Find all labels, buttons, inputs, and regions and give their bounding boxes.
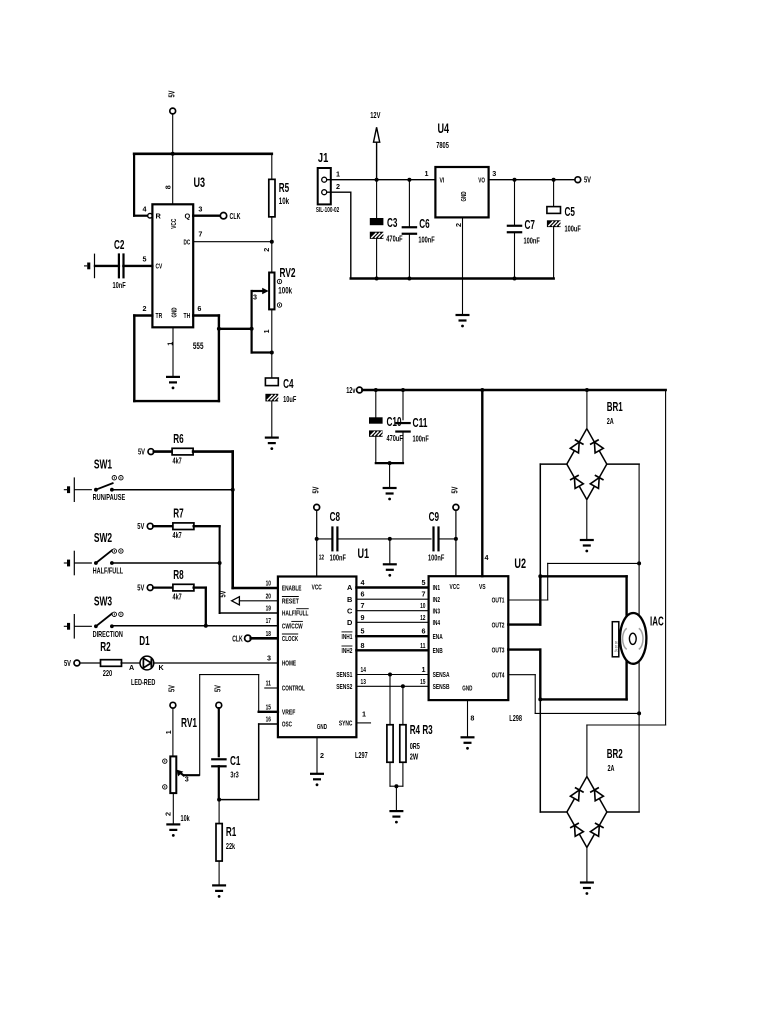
svg-text:SENS2: SENS2	[336, 682, 352, 691]
svg-text:VCC: VCC	[450, 582, 461, 591]
svg-text:IN1: IN1	[433, 583, 441, 592]
svg-text:R6: R6	[173, 432, 183, 446]
svg-text:2: 2	[143, 304, 147, 313]
svg-text:5V: 5V	[137, 521, 144, 531]
svg-text:R8: R8	[173, 568, 183, 582]
svg-text:3: 3	[492, 169, 496, 178]
svg-text:2A: 2A	[607, 416, 614, 426]
svg-text:GND: GND	[317, 722, 327, 731]
svg-text:5V: 5V	[167, 685, 177, 692]
svg-text:100nF: 100nF	[418, 235, 434, 245]
svg-text:1: 1	[262, 329, 271, 333]
svg-text:5V: 5V	[64, 658, 71, 668]
svg-text:1: 1	[166, 342, 175, 346]
svg-text:GND: GND	[459, 191, 468, 201]
svg-text:3: 3	[253, 293, 257, 302]
svg-text:RV1: RV1	[181, 716, 197, 730]
svg-text:OUT3: OUT3	[492, 645, 505, 654]
svg-text:4: 4	[485, 553, 489, 562]
svg-text:IN2: IN2	[433, 595, 441, 604]
svg-text:SW3: SW3	[94, 594, 112, 608]
svg-text:U3: U3	[194, 174, 206, 190]
svg-text:GND: GND	[169, 307, 178, 317]
svg-text:CLK: CLK	[232, 634, 243, 643]
svg-text:18: 18	[266, 629, 271, 638]
svg-text:C1: C1	[230, 754, 240, 768]
svg-text:5V: 5V	[450, 486, 460, 493]
svg-text:6: 6	[361, 590, 365, 599]
svg-text:TR: TR	[156, 311, 163, 320]
svg-text:GND: GND	[462, 684, 472, 693]
svg-text:C9: C9	[429, 510, 439, 524]
svg-text:4k7: 4k7	[173, 530, 182, 540]
svg-text:IAC: IAC	[650, 615, 664, 629]
svg-text:CLOCK: CLOCK	[282, 634, 299, 643]
svg-text:SW2: SW2	[94, 531, 112, 545]
svg-text:7: 7	[422, 590, 426, 599]
svg-text:4k7: 4k7	[173, 456, 182, 466]
svg-text:DC: DC	[184, 237, 191, 246]
svg-text:11: 11	[420, 641, 425, 650]
svg-text:C3: C3	[387, 216, 397, 230]
svg-text:100nF: 100nF	[413, 434, 429, 444]
svg-text:5V: 5V	[138, 447, 145, 457]
svg-text:CW/CCW: CW/CCW	[282, 621, 303, 630]
svg-text:17: 17	[266, 616, 271, 625]
svg-text:B: B	[347, 595, 352, 604]
svg-text:8: 8	[470, 714, 474, 723]
svg-text:A: A	[347, 583, 353, 592]
svg-text:C: C	[347, 606, 353, 615]
svg-text:7: 7	[198, 229, 202, 238]
svg-text:VCC: VCC	[312, 583, 323, 592]
svg-text:22k: 22k	[226, 841, 235, 851]
svg-text:INH1: INH1	[342, 632, 353, 641]
svg-text:1: 1	[362, 710, 366, 719]
svg-text:8: 8	[164, 185, 173, 189]
svg-text:ENA: ENA	[433, 632, 444, 641]
svg-text:Q: Q	[184, 211, 190, 220]
svg-text:C7: C7	[525, 218, 535, 232]
svg-text:5: 5	[422, 578, 426, 587]
svg-text:3: 3	[185, 775, 189, 784]
svg-text:7805: 7805	[436, 140, 449, 150]
svg-text:10: 10	[266, 579, 271, 588]
svg-text:1: 1	[425, 169, 429, 178]
svg-text:2: 2	[164, 812, 173, 816]
svg-text:R5: R5	[279, 181, 289, 195]
svg-text:555: 555	[193, 341, 204, 352]
svg-text:L297: L297	[355, 750, 368, 760]
svg-text:IN3: IN3	[433, 606, 441, 615]
svg-text:DIRECTION: DIRECTION	[93, 629, 123, 639]
svg-text:10k: 10k	[181, 813, 190, 823]
svg-text:6: 6	[422, 627, 426, 636]
svg-text:BR1: BR1	[607, 400, 623, 414]
svg-text:SIL-100-02: SIL-100-02	[316, 207, 339, 214]
svg-text:C8: C8	[330, 510, 340, 524]
svg-text:C2: C2	[114, 238, 124, 252]
svg-text:10uF: 10uF	[283, 394, 296, 404]
svg-text:8: 8	[361, 641, 365, 650]
svg-text:D1: D1	[139, 634, 149, 648]
svg-text:100nF: 100nF	[524, 236, 540, 246]
svg-text:5V: 5V	[584, 175, 591, 185]
svg-text:OSC: OSC	[282, 720, 293, 729]
svg-text:LED-RED: LED-RED	[131, 677, 155, 687]
svg-text:2: 2	[320, 751, 324, 760]
svg-text:10: 10	[420, 601, 425, 610]
svg-text:K: K	[159, 663, 165, 672]
svg-text:VS: VS	[479, 582, 486, 591]
svg-text:12: 12	[319, 553, 324, 562]
svg-text:R: R	[156, 211, 162, 220]
svg-text:C6: C6	[419, 217, 429, 231]
svg-text:BR2: BR2	[607, 747, 623, 761]
svg-text:SENSB: SENSB	[433, 682, 450, 691]
svg-text:RESET: RESET	[282, 597, 299, 606]
svg-text:15: 15	[266, 702, 271, 711]
svg-text:20: 20	[266, 591, 271, 600]
svg-text:12V: 12V	[370, 110, 380, 120]
svg-text:VI: VI	[440, 176, 445, 185]
svg-text:RUN/PAUSE: RUN/PAUSE	[93, 492, 126, 502]
svg-text:5V: 5V	[212, 685, 222, 692]
svg-text:SENS1: SENS1	[336, 670, 352, 679]
svg-text:OUT1: OUT1	[492, 596, 505, 605]
svg-text:6: 6	[197, 304, 201, 313]
svg-text:3: 3	[267, 654, 271, 663]
svg-text:VREF: VREF	[282, 708, 296, 717]
svg-text:U4: U4	[438, 120, 450, 136]
svg-text:2A: 2A	[608, 763, 615, 773]
svg-text:7: 7	[361, 601, 365, 610]
svg-text:10nF: 10nF	[113, 280, 126, 290]
svg-text:D: D	[347, 618, 353, 627]
svg-text:470uF: 470uF	[386, 234, 402, 244]
svg-text:1: 1	[422, 665, 426, 674]
svg-text:TH: TH	[184, 311, 191, 320]
svg-text:5v on on: 5v on on	[614, 641, 619, 652]
svg-text:L298: L298	[509, 713, 522, 723]
svg-text:CONTROL: CONTROL	[282, 684, 305, 693]
svg-text:0R5: 0R5	[410, 741, 420, 751]
svg-text:5V: 5V	[137, 583, 144, 593]
svg-text:C5: C5	[565, 205, 575, 219]
svg-text:R7: R7	[173, 507, 183, 521]
svg-text:R2: R2	[100, 640, 110, 654]
svg-text:5V: 5V	[310, 486, 320, 493]
svg-text:19: 19	[266, 604, 271, 613]
svg-text:2W: 2W	[410, 752, 419, 762]
svg-text:100nF: 100nF	[428, 553, 444, 563]
svg-text:1: 1	[336, 170, 340, 179]
svg-text:15: 15	[420, 677, 425, 686]
svg-text:ENABLE: ENABLE	[282, 584, 302, 593]
svg-text:C11: C11	[413, 416, 428, 430]
svg-text:SYNC: SYNC	[339, 719, 353, 728]
svg-text:470uF: 470uF	[387, 433, 403, 443]
svg-text:HALF/FULL: HALF/FULL	[282, 609, 309, 618]
svg-text:2: 2	[262, 248, 271, 252]
svg-text:HOME: HOME	[282, 659, 296, 668]
svg-text:5: 5	[361, 627, 365, 636]
svg-text:2: 2	[454, 223, 463, 227]
svg-text:16: 16	[266, 715, 271, 724]
svg-text:CV: CV	[156, 262, 163, 271]
svg-text:OUT2: OUT2	[492, 620, 505, 629]
svg-text:3r3: 3r3	[230, 770, 238, 780]
svg-text:9: 9	[361, 613, 365, 622]
svg-text:4: 4	[361, 578, 365, 587]
svg-text:100nF: 100nF	[330, 553, 346, 563]
svg-text:220: 220	[103, 668, 113, 678]
svg-text:SENSA: SENSA	[433, 670, 450, 679]
svg-text:IN4: IN4	[433, 618, 441, 627]
svg-text:12: 12	[420, 613, 425, 622]
svg-text:100k: 100k	[278, 286, 292, 297]
svg-text:VO: VO	[478, 176, 485, 185]
svg-text:5: 5	[143, 255, 147, 264]
svg-text:14: 14	[361, 665, 366, 674]
svg-text:5V: 5V	[217, 590, 227, 597]
svg-text:INH2: INH2	[342, 646, 353, 655]
svg-text:R1: R1	[226, 825, 236, 839]
svg-text:ENB: ENB	[433, 646, 443, 655]
svg-text:RV2: RV2	[280, 266, 296, 280]
svg-text:R4 R3: R4 R3	[410, 723, 433, 737]
svg-text:4k7: 4k7	[173, 591, 182, 601]
svg-text:HALF/FULL: HALF/FULL	[93, 566, 124, 576]
svg-text:SW1: SW1	[94, 458, 112, 472]
svg-text:1: 1	[164, 730, 173, 734]
svg-text:2: 2	[336, 182, 340, 191]
svg-text:A: A	[129, 663, 134, 672]
svg-text:OUT4: OUT4	[492, 670, 505, 679]
svg-text:10k: 10k	[279, 196, 290, 207]
svg-text:U1: U1	[358, 545, 370, 561]
svg-text:100uF: 100uF	[565, 224, 581, 234]
svg-text:12v: 12v	[346, 385, 355, 395]
svg-text:4: 4	[143, 205, 147, 214]
svg-text:5V: 5V	[166, 90, 176, 97]
svg-text:13: 13	[361, 677, 366, 686]
svg-text:C4: C4	[283, 377, 293, 391]
svg-text:VCC: VCC	[169, 218, 178, 229]
svg-text:J1: J1	[318, 151, 328, 165]
svg-text:CLK: CLK	[230, 211, 241, 221]
svg-text:11: 11	[266, 679, 271, 688]
svg-text:U2: U2	[514, 555, 526, 571]
svg-text:3: 3	[198, 205, 202, 214]
